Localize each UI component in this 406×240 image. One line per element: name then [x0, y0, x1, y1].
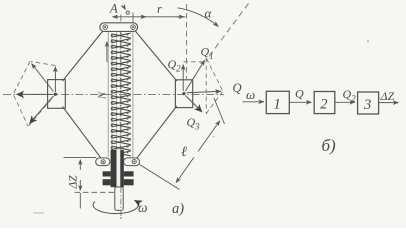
svg-text:а): а): [172, 201, 184, 217]
svg-text:ΔZ: ΔZ: [380, 89, 395, 103]
flyweight right: [175, 80, 192, 108]
sleeve collar black column: [103, 150, 134, 187]
dashed arm extension (alpha line): [207, 4, 249, 60]
input omega arrow: [243, 101, 265, 103]
node A pin circle: [126, 11, 129, 14]
leader arrow at A: [122, 6, 126, 10]
white slot in collar: [117, 150, 121, 187]
svg-text:1: 1: [274, 97, 281, 113]
force Q2: [182, 65, 184, 92]
node centerline: horizontal dash-dot through ball centers: [3, 93, 224, 95]
svg-text:r: r: [157, 2, 162, 16]
force Q1: [186, 60, 205, 91]
force N arrow up on rod: [106, 42, 108, 63]
svg-text:N: N: [98, 91, 109, 100]
svg-text:б): б): [322, 136, 337, 155]
arm: upper right: [133, 29, 177, 82]
svg-text:2: 2: [320, 97, 327, 113]
rotation ellipse omega: [93, 200, 138, 213]
wire: central shaft slot edges: [117, 31, 121, 150]
svg-text:Q: Q: [295, 87, 304, 101]
wire: guide rod left: [107, 31, 109, 157]
dimension r: [113, 16, 186, 18]
svg-text:3: 3: [363, 97, 371, 113]
flyweight left: [48, 80, 66, 109]
svg-text:A: A: [109, 2, 118, 16]
node: vertical dashed line over right ball: [186, 4, 188, 79]
svg-text:ΔZ: ΔZ: [68, 175, 80, 190]
left dashed parallelogram: [14, 62, 56, 127]
output delta-z: [379, 102, 399, 104]
svg-text:ω: ω: [246, 87, 255, 102]
arm: upper left: [63, 29, 105, 82]
sleeve bar right: [124, 158, 140, 166]
left force: vertical up: [54, 67, 56, 93]
svg-text:ω: ω: [138, 200, 148, 215]
left force: down-left bold: [30, 97, 54, 124]
node axis: vertical dash-dot spindle centerline: [120, 15, 122, 220]
spring: central coil: [111, 33, 131, 156]
block 1: [266, 91, 289, 113]
angle alpha arc: [178, 8, 219, 27]
block 3: [358, 92, 379, 114]
arm: lower left: [63, 107, 104, 162]
block 2: [314, 92, 335, 114]
right dashed parallelogram: [184, 58, 223, 115]
force Q3 bold: [186, 96, 203, 113]
left force: horizontal resultant: [17, 93, 53, 95]
sleeve bar left: [96, 158, 110, 166]
wire: guide rod right: [132, 31, 134, 157]
scan specks: [33, 40, 369, 214]
arm: lower right: [134, 106, 176, 161]
label N rotated: [98, 91, 109, 100]
top pivot bar: [100, 23, 138, 32]
svg-text:ℓ: ℓ: [181, 145, 187, 160]
output shaft below collar: [115, 187, 123, 210]
wire 1-2 with Q: [289, 101, 311, 103]
force Q: [187, 91, 222, 93]
wire 2-3 with Q2: [335, 101, 355, 103]
wire: extension line from right pin: [132, 13, 134, 24]
left force: up-left along arm ext: [32, 64, 54, 92]
svg-text:Q: Q: [233, 81, 242, 95]
dimension delta-z: [64, 158, 115, 209]
dimension l (arm length): [140, 98, 225, 190]
svg-text:α: α: [205, 6, 213, 21]
